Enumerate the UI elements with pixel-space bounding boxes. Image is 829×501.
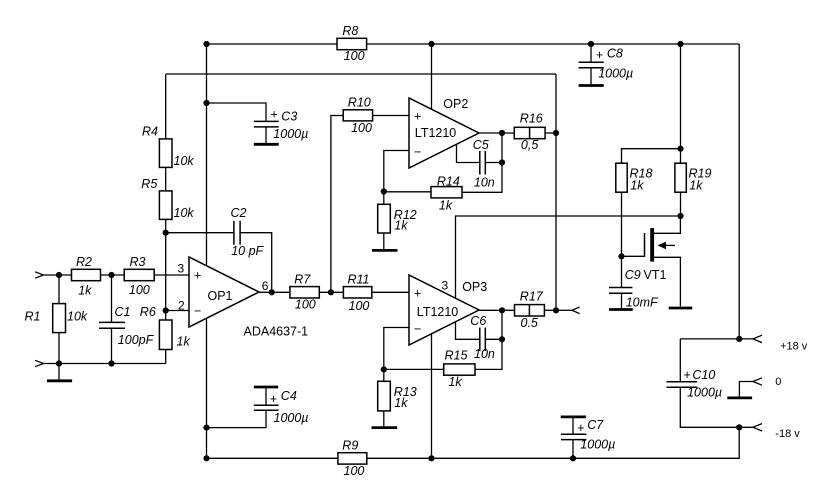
wire: feedback node to C2 left plate [166, 232, 234, 234]
svg-text:10n: 10n [474, 347, 495, 361]
svg-text:0.5: 0.5 [521, 316, 538, 330]
capacitor C8 [579, 47, 634, 86]
wire: R15 to OP3 output column [475, 310, 502, 369]
svg-text:1k: 1k [394, 219, 408, 233]
ground below R13 [372, 411, 398, 428]
node: OP2 output column nodes [499, 130, 505, 136]
resistor R3 [124, 255, 154, 297]
svg-text:+: + [577, 421, 584, 435]
svg-text:R4: R4 [142, 125, 158, 139]
resistor R9 [338, 438, 367, 478]
wire: R19 bottom to drain node [680, 193, 682, 216]
resistor R17 [515, 289, 545, 329]
input connector 1 [35, 272, 43, 278]
resistor R2 [72, 255, 101, 298]
wire: +18v feed from C10 top [680, 338, 753, 340]
wire: input 2 ground wire to R6 bottom [44, 363, 166, 365]
op-amp OP3 (LT1210) [409, 275, 487, 345]
node: OP1 output and R7/R11 node [269, 289, 275, 295]
svg-text:C2: C2 [231, 206, 247, 220]
svg-text:R1: R1 [25, 310, 41, 324]
svg-text:LT1210: LT1210 [417, 305, 459, 319]
svg-text:10k: 10k [174, 154, 195, 168]
ground for 0 terminal [727, 396, 752, 399]
wire: C10 top stub [679, 339, 681, 382]
svg-text:C4: C4 [281, 389, 297, 403]
resistor R8 [337, 24, 367, 63]
svg-text:2: 2 [178, 299, 185, 313]
wire: OP1 output to R7 [259, 291, 290, 293]
resistor R18 [616, 163, 653, 192]
svg-text:+: + [270, 392, 277, 406]
node: output bus nodes [553, 130, 559, 136]
capacitor C7 [561, 417, 616, 458]
wire: C4 branch to left rail [207, 410, 267, 427]
svg-text:100: 100 [344, 464, 365, 478]
svg-text:R16: R16 [520, 112, 543, 126]
wire: C6 right plate to output column [485, 338, 502, 340]
svg-text:OP1: OP1 [208, 289, 233, 303]
wire: C10 bottom stub to -18v wire [680, 387, 753, 427]
wire: top positive supply rail y=44 [207, 43, 338, 45]
wire: R4/R5/R6 column x=165.7 [165, 74, 167, 139]
wire: bottom negative supply rail y=458.3 [207, 457, 338, 459]
svg-text:C8: C8 [607, 47, 623, 61]
wire: input 1 to R2 [44, 274, 72, 276]
svg-text:VT1: VT1 [644, 268, 667, 282]
svg-text:C6: C6 [470, 314, 486, 328]
node: C3 tap on left rail [203, 100, 209, 106]
node: feedback divider taps [163, 230, 169, 236]
wire: output node to output connector [556, 309, 572, 311]
svg-text:C5: C5 [473, 138, 489, 152]
op-amp OP2 (LT1210) [409, 97, 479, 168]
svg-text:R2: R2 [76, 255, 92, 269]
svg-text:1000µ: 1000µ [273, 127, 308, 141]
svg-text:1k: 1k [439, 199, 453, 213]
svg-text:C7: C7 [587, 418, 604, 432]
wire: vertical output bus x=556 down to output node [555, 74, 557, 310]
svg-text:100: 100 [129, 283, 150, 297]
svg-text:10mF: 10mF [626, 295, 659, 309]
resistor R19 [675, 163, 712, 192]
wire: R13 node to R15 [384, 368, 444, 370]
wire: R10 to OP2 + input [373, 115, 409, 117]
0 connector [753, 376, 781, 388]
svg-text:3: 3 [442, 278, 449, 292]
svg-text:1k: 1k [689, 179, 703, 193]
svg-text:R5: R5 [141, 177, 157, 191]
svg-text:R8: R8 [342, 24, 358, 38]
svg-text:1k: 1k [394, 396, 408, 410]
capacitor C6 [470, 314, 495, 361]
wire: R12 node to R14 [384, 191, 431, 193]
svg-text:R7: R7 [294, 273, 311, 287]
svg-text:1k: 1k [448, 375, 462, 389]
node: OP3 output column nodes [499, 307, 505, 313]
wire: C1 stubs [111, 275, 113, 322]
wire: OP2 V+ pin x=431.5 [431, 44, 433, 109]
svg-text:+: + [414, 287, 421, 301]
wire: OP3 V- pin x=431.5 down to bottom rail [431, 334, 433, 459]
capacitor C3 [254, 108, 309, 145]
wire: OP2 - input to R12/R14 node [384, 151, 409, 205]
wire: R1 stubs [58, 275, 60, 304]
capacitor C9 [609, 256, 659, 309]
resistor R11 [343, 273, 371, 314]
svg-text:100: 100 [344, 49, 365, 63]
svg-text:+: + [596, 48, 603, 62]
capacitor C5 [473, 138, 495, 190]
node: R18/R19 top node [677, 146, 683, 152]
resistor R10 [343, 95, 372, 135]
capacitor C10 [667, 368, 723, 400]
svg-text:R14: R14 [437, 175, 460, 189]
wire: C5 right plate to output column [485, 162, 502, 164]
transistor VT1 (MOSFET) [622, 216, 693, 308]
ground below R12 [372, 233, 398, 250]
node: top rail junctions [203, 41, 209, 47]
node: R12 feedback node [381, 188, 387, 194]
svg-text:10 pF: 10 pF [231, 244, 264, 258]
wire: R11 to OP3 + input [372, 291, 409, 293]
wire: OP2 comp pin to C5 [457, 145, 480, 163]
wire: OP2 output to R16 [479, 132, 514, 134]
node: drain node [677, 213, 683, 219]
+18v connector [753, 335, 808, 352]
svg-text:R6: R6 [140, 305, 156, 319]
resistor R4 [142, 125, 194, 168]
node: -18v node [736, 424, 742, 430]
resistor R12 [378, 204, 417, 233]
resistor R6 [140, 305, 191, 350]
wire: R7 to R11 through node [319, 291, 343, 293]
capacitor C1 [99, 305, 155, 347]
svg-text:+: + [414, 110, 421, 124]
wire: C2 right plate to OP1 output node [240, 233, 272, 293]
wire: OP1 pin 2 from feedback column [166, 310, 189, 312]
svg-text:R3: R3 [130, 255, 146, 269]
svg-text:3: 3 [178, 262, 185, 276]
wire: right rail from top corner down to +18v node [738, 44, 740, 339]
svg-text:6: 6 [262, 279, 269, 293]
wire: C8 stub from top rail [590, 44, 592, 62]
svg-text:1k: 1k [630, 179, 644, 193]
wire: R14 to OP2 output column [462, 133, 502, 192]
wire: R18 branch [622, 149, 681, 163]
resistor R1 [25, 304, 88, 333]
wire: R3 to OP1 pin 3 [154, 274, 189, 276]
node: R13 feedback node [381, 366, 387, 372]
svg-text:1000µ: 1000µ [580, 438, 615, 452]
svg-text:C9: C9 [625, 268, 641, 282]
wire: OP3 V+ pin and supply link to R19 node [456, 216, 681, 298]
node: input network junctions [56, 272, 62, 278]
input connector 2 [35, 360, 43, 366]
svg-text:−: − [194, 304, 201, 318]
svg-text:R10: R10 [348, 95, 371, 109]
svg-text:1k: 1k [177, 335, 191, 349]
wire: R19 stub [680, 149, 682, 163]
svg-text:−: − [414, 322, 421, 336]
svg-text:R9: R9 [342, 438, 358, 452]
ground below input 2 [47, 364, 72, 381]
svg-text:R15: R15 [445, 349, 468, 363]
svg-text:0,5: 0,5 [521, 138, 538, 152]
wire: output feedback wire y=74 from R4 column to x=556 [166, 73, 556, 75]
svg-text:100: 100 [351, 121, 372, 135]
wire: R17 to output node [544, 309, 556, 311]
svg-text:100: 100 [295, 298, 316, 312]
svg-text:+18 v: +18 v [780, 340, 808, 352]
resistor R16 [514, 112, 545, 152]
svg-text:OP3: OP3 [462, 280, 487, 294]
resistor R13 [378, 381, 417, 411]
svg-text:0: 0 [775, 376, 781, 388]
svg-text:-18 v: -18 v [775, 428, 800, 440]
capacitor C4 [254, 387, 309, 425]
svg-text:10n: 10n [474, 176, 495, 190]
resistor R5 [141, 177, 194, 220]
wire: C3 branch from left rail [207, 103, 267, 121]
wire: OP1 V- pin / left rail bottom x=206.5 [206, 318, 208, 458]
wire: OP1 V+ pin / left rail top x=206.5 [206, 44, 208, 266]
wire: OP3 output to R17 [479, 309, 515, 311]
svg-text:C3: C3 [281, 110, 297, 124]
svg-text:100: 100 [349, 299, 370, 313]
svg-text:+: + [194, 269, 201, 283]
output connector [572, 307, 580, 314]
-18v connector [753, 424, 800, 440]
wire: R16 to output bus [545, 132, 556, 134]
svg-text:100pF: 100pF [118, 333, 155, 347]
svg-text:C1: C1 [115, 305, 131, 319]
svg-text:C10: C10 [692, 368, 715, 382]
wire: C8 lower stub [590, 68, 592, 84]
svg-text:R11: R11 [348, 273, 370, 287]
wire: R18 bottom to gate node [621, 193, 623, 257]
op-amp OP1 (ADA4637-1) [189, 257, 308, 338]
svg-text:−: − [414, 145, 421, 159]
svg-text:1000µ: 1000µ [274, 411, 309, 425]
svg-text:10k: 10k [67, 310, 88, 324]
svg-text:+: + [683, 368, 690, 382]
wire: node up to R10 [331, 116, 343, 293]
resistor R15 [444, 349, 475, 390]
svg-text:LT1210: LT1210 [415, 126, 457, 140]
node: bottom rail junctions [203, 425, 209, 431]
svg-text:R17: R17 [520, 289, 544, 303]
wire: 0 terminal leg [739, 382, 753, 397]
svg-text:1000µ: 1000µ [687, 386, 722, 400]
svg-text:1000µ: 1000µ [598, 67, 633, 81]
node: gate node [618, 253, 624, 259]
node: +18v node [736, 336, 742, 342]
resistor R14 [431, 175, 462, 213]
wire: R2 to R3 through node [101, 274, 125, 276]
wire: top rail to R18/R19 node x=680.5 [680, 44, 682, 149]
svg-text:10k: 10k [174, 206, 195, 220]
svg-text:ADA4637-1: ADA4637-1 [244, 324, 309, 338]
svg-text:+: + [270, 108, 277, 122]
capacitor C2 [231, 206, 265, 258]
wire: OP3 - input to R13/R15 node [384, 328, 409, 382]
svg-text:OP2: OP2 [443, 97, 468, 111]
wire: OP3 comp pin to C6 [456, 322, 480, 340]
resistor R7 [290, 273, 319, 312]
svg-text:1k: 1k [78, 284, 92, 298]
